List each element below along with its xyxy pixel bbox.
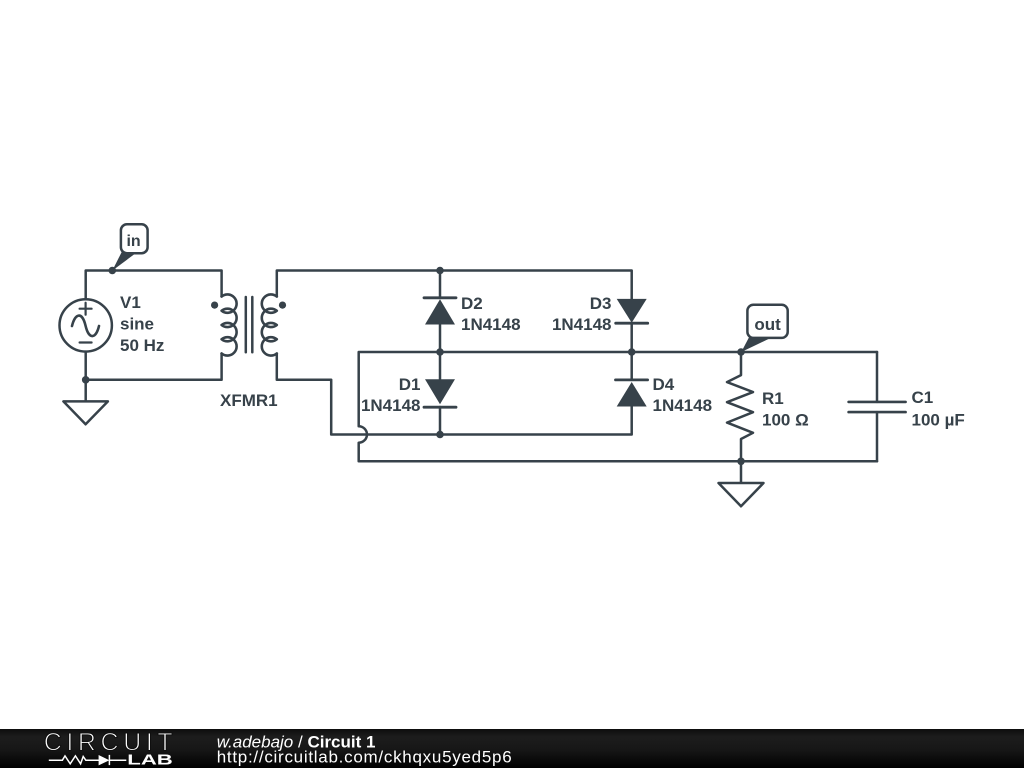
svg-text:XFMR1: XFMR1 [220,391,278,410]
svg-text:1N4148: 1N4148 [552,315,612,334]
diode D3 cathode bar [616,322,648,325]
wire: D4 upper pin [630,352,633,380]
svg-text:D4: D4 [653,375,675,394]
junction node: out / R1 top [737,348,745,356]
svg-text:sine: sine [120,315,154,334]
node flag "out" [741,305,787,352]
svg-text:http://circuitlab.com/ckhqxu5y: http://circuitlab.com/ckhqxu5yed5p6 [217,748,512,767]
transformer secondary phase dot [279,302,286,309]
capacitor C1 plates [849,402,906,412]
junction node: V1 bottom [82,376,90,384]
svg-text:100 Ω: 100 Ω [762,411,809,430]
diode D4 (pointing up) [617,382,647,407]
wire: D1 branch [439,352,442,435]
svg-text:D1: D1 [399,375,421,394]
svg-text:LAB: LAB [127,752,173,768]
svg-text:D3: D3 [590,294,612,313]
junction node: mid rail / D3-D4 [628,348,636,356]
wire: transformer secondary top to D3 top [277,271,632,299]
wire: D3 lower pin [630,323,633,352]
ground (R1/out) [719,461,764,506]
footer band [0,729,1024,768]
svg-text:R1: R1 [762,389,784,408]
svg-text:100 µF: 100 µF [912,411,965,430]
junction node: in label [109,267,117,275]
transformer core lines [246,297,253,352]
transformer XFMR1 secondary coil [262,294,277,355]
diode D2 (pointing up) [425,299,455,324]
junction node: R1 bottom / ground [737,458,745,466]
diode D3 (pointing down) [617,299,647,323]
svg-text:out: out [754,315,781,334]
diode D1 (pointing down) [425,379,455,404]
diode D4 cathode bar [616,378,648,381]
svg-text:1N4148: 1N4148 [461,315,521,334]
wire: V1 bottom to transformer primary bottom [86,352,222,380]
V1 plus sign [80,303,92,315]
svg-text:50 Hz: 50 Hz [120,336,164,355]
voltage source V1 circle [59,299,111,351]
CircuitLab logo diode triangle [99,755,110,765]
CircuitLab logo resistor-diode glyph [49,755,127,765]
junction node: mid rail / D1-D2 [436,348,444,356]
svg-text:1N4148: 1N4148 [653,396,713,415]
junction node: bottom bridge rail / D1 [436,431,444,439]
diode D2 cathode bar [424,296,456,299]
wire: mid rail with hop down to lowest rail [359,352,877,461]
wire: D2 branch [439,271,442,353]
svg-text:V1: V1 [120,293,141,312]
svg-text:in: in [126,233,140,250]
wire: C1 branch verticals [876,352,879,461]
junction node: top rail / D2 [436,267,444,275]
wire: transformer secondary bottom to D4 bottom (bridge bottom rail) [277,354,632,435]
svg-text:D2: D2 [461,294,483,313]
V1 minus sign [80,341,92,343]
svg-text:1N4148: 1N4148 [361,396,421,415]
transformer primary phase dot [211,302,218,309]
wire: V1 top to transformer primary top [86,271,222,300]
V1 sine wave [72,316,99,336]
node flag "in" [112,224,147,270]
ground (V1) [63,380,108,425]
resistor R1 [727,352,753,461]
diode D1 cathode bar [424,406,456,409]
svg-text:C1: C1 [912,388,934,407]
transformer XFMR1 primary coil [222,294,237,355]
